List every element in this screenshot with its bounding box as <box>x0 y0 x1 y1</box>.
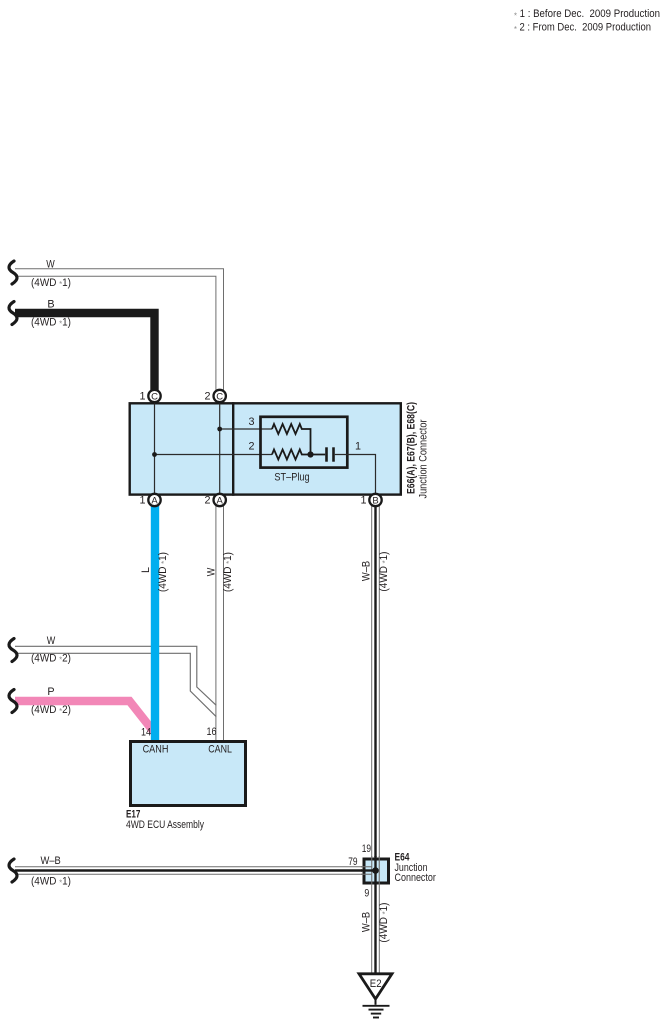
legend note *1 <box>514 8 660 20</box>
label wire W-B horizontal <box>31 855 71 888</box>
svg-text:W–B: W–B <box>360 561 372 581</box>
svg-text:(4WD *1): (4WD *1) <box>31 316 71 328</box>
label E17 <box>126 809 140 821</box>
node junction dot resistors <box>307 451 313 457</box>
svg-text:1: 1 <box>360 495 366 507</box>
svg-text:CANH: CANH <box>143 743 169 755</box>
wire capacitor to pin 1(B) <box>335 455 376 501</box>
svg-text:4WD ECU Assembly: 4WD ECU Assembly <box>126 819 204 831</box>
svg-text:14: 14 <box>141 726 151 738</box>
pin 3 label <box>248 416 254 428</box>
svg-text:E2: E2 <box>370 978 382 990</box>
pin 9 label <box>364 888 369 900</box>
wire W vertical from pin 2(A) to pin 16 <box>215 500 224 741</box>
svg-text:2: 2 <box>204 391 210 403</box>
ground E2 <box>359 974 392 1018</box>
connector break squiggle wire W top <box>9 261 17 284</box>
svg-text:9: 9 <box>364 888 369 900</box>
svg-text:(4WD *1): (4WD *1) <box>31 876 71 888</box>
svg-text:B: B <box>372 495 378 506</box>
svg-text:W–B: W–B <box>41 855 61 867</box>
label wire W top <box>31 259 71 290</box>
svg-text:(4WD *2): (4WD *2) <box>31 653 71 665</box>
connector break squiggle wire P <box>9 690 17 713</box>
svg-text:A: A <box>217 495 224 506</box>
node junction dot on wire 2 <box>217 427 222 432</box>
connector break squiggle wire W-B <box>9 859 17 882</box>
svg-text:W–B: W–B <box>360 912 372 932</box>
svg-text:Connector: Connector <box>395 872 437 884</box>
label wire W vertical <box>205 552 234 592</box>
label wire P <box>31 686 71 716</box>
label CANH <box>143 743 169 755</box>
ST-Plug box <box>261 417 348 468</box>
svg-text:* 2 : From Dec. 2009 Producti: * 2 : From Dec. 2009 Production <box>514 22 651 34</box>
label ST-Plug <box>274 472 309 484</box>
node E64 junction dot <box>372 867 379 874</box>
wire W-B horizontal to E64 pin 79 <box>15 866 362 875</box>
svg-text:Junction Connector: Junction Connector <box>418 419 430 498</box>
svg-text:W: W <box>47 635 56 647</box>
wire W-B vertical from pin 1(B) to E64 <box>371 500 380 857</box>
svg-text:(4WD *2): (4WD *2) <box>31 704 71 716</box>
label Junction Connector E64 <box>395 862 437 884</box>
svg-text:* 1 : Before Dec. 2009 Produc: * 1 : Before Dec. 2009 Production <box>514 8 660 20</box>
wire W-B into E64 horizontal <box>361 867 376 875</box>
svg-text:L: L <box>140 567 152 573</box>
junction connector E64 <box>364 859 389 883</box>
wire inside box pin 2(C) to 2(A) <box>219 396 221 500</box>
pin 2 label <box>248 440 254 452</box>
label wire W-B vertical upper <box>360 552 390 592</box>
label wire L vertical <box>140 552 169 592</box>
pin circle 1(A) <box>139 494 160 507</box>
svg-text:ST–Plug: ST–Plug <box>274 472 309 484</box>
label wire B <box>31 299 71 329</box>
svg-text:(4WD *1): (4WD *1) <box>378 903 390 943</box>
pin 19 label <box>362 843 371 855</box>
node junction dot on wire 1 <box>152 452 157 457</box>
label E64 <box>395 852 410 864</box>
svg-text:(4WD *1): (4WD *1) <box>157 552 169 592</box>
ECU box E17 <box>131 742 246 806</box>
wire W-B through E64 vertical <box>372 856 380 885</box>
svg-text:C: C <box>151 391 158 402</box>
wire W-B from E64 pin 9 to ground <box>371 884 380 974</box>
wire node to ST-Plug pin 3 <box>220 428 272 430</box>
pin 14 label <box>141 726 151 738</box>
svg-text:(4WD *1): (4WD *1) <box>222 552 234 592</box>
svg-text:1: 1 <box>139 495 145 507</box>
label E66(A), E67(B), E68(C) <box>406 402 430 499</box>
svg-text:P: P <box>47 686 54 698</box>
svg-text:W: W <box>205 567 217 576</box>
svg-text:A: A <box>151 495 158 506</box>
svg-text:2: 2 <box>248 440 254 452</box>
svg-text:C: C <box>216 391 223 402</box>
svg-text:19: 19 <box>362 843 371 855</box>
capacitor in ST-Plug <box>327 447 334 461</box>
resistor bottom in ST-Plug <box>272 450 325 460</box>
wire inside box pin 1(C) to 1(A) <box>154 396 156 500</box>
pin circle 2(A) <box>204 494 225 507</box>
svg-text:(4WD *1): (4WD *1) <box>378 552 390 592</box>
svg-text:B: B <box>47 299 54 311</box>
connector break squiggle wire B <box>9 302 17 325</box>
pin circle 2(C) <box>204 390 225 403</box>
svg-text:CANL: CANL <box>208 743 232 755</box>
pin 1 label <box>355 441 361 453</box>
pin circle 1(B) <box>360 494 381 507</box>
label 4WD ECU Assembly <box>126 819 204 831</box>
legend note *2 <box>514 22 651 34</box>
pin 79 label <box>348 856 357 868</box>
svg-text:2: 2 <box>204 495 210 507</box>
svg-text:1: 1 <box>355 441 361 453</box>
pin circle 1(C) <box>139 390 160 403</box>
label wire W *2 <box>31 635 71 665</box>
junction connector box E66/E67/E68 <box>130 402 401 496</box>
svg-text:(4WD *1): (4WD *1) <box>31 277 71 289</box>
connector break squiggle wire W *2 <box>9 639 17 662</box>
wire L cyan from pin 1(A) to CANH <box>151 500 159 741</box>
svg-text:1: 1 <box>139 391 145 403</box>
label CANL <box>208 743 232 755</box>
wire W (4WD *2) branch <box>15 646 216 716</box>
wire P (4WD *2) pink <box>15 701 156 734</box>
wire W (4WD *1) top <box>15 273 220 393</box>
resistor top in ST-Plug <box>272 424 311 455</box>
svg-text:79: 79 <box>348 856 357 868</box>
svg-text:16: 16 <box>207 726 217 738</box>
label wire W-B vertical lower <box>360 903 390 943</box>
svg-text:3: 3 <box>248 416 254 428</box>
wire node to ST-Plug pin 2 <box>155 454 273 456</box>
wire B (4WD *1) thick black <box>15 313 155 392</box>
svg-text:W: W <box>46 259 55 271</box>
pin 16 label <box>207 726 217 738</box>
svg-text:E66(A), E67(B), E68(C): E66(A), E67(B), E68(C) <box>406 402 418 494</box>
